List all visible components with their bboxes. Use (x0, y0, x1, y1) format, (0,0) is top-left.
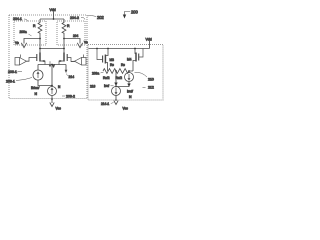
svg-text:208-1: 208-1 (6, 80, 15, 84)
outer dashed box 202 (left amplifier) (9, 15, 87, 99)
label 210 (135, 72, 154, 81)
Vss arrow (left box bottom) (50, 103, 61, 111)
node: right output tap (63, 38, 65, 40)
node: bottom edge crossing (51, 98, 53, 100)
svg-text:208-2: 208-2 (66, 95, 75, 99)
wire: tail rail (38, 64, 66, 66)
svg-text:Vo: Vo (84, 41, 88, 45)
label 208-1 (6, 78, 32, 84)
svg-text:Vdd: Vdd (50, 8, 56, 12)
label 214 (90, 85, 96, 89)
svg-text:N: N (35, 92, 38, 96)
current source I3 (210, upper right) (116, 71, 134, 87)
node: I3 top junction (128, 70, 130, 72)
VDD right (146, 38, 152, 49)
transistor M3 (diode-connected) (97, 49, 114, 72)
resistor value labels (103, 76, 122, 80)
label 206a (20, 30, 32, 36)
svg-text:M4: M4 (127, 58, 132, 62)
label Ibias/N (31, 86, 39, 96)
svg-text:Ibias/: Ibias/ (31, 86, 39, 90)
labels Rs/2 (110, 63, 125, 67)
transistor M4 (mirror) (127, 49, 143, 72)
label 204-2 (70, 16, 85, 20)
node: m4 drain (134, 48, 136, 50)
resistor R2 (right load) (62, 19, 70, 53)
Vss arrow (right box) (114, 101, 128, 111)
wire + output terminal arrow Vo+ (right) (64, 34, 88, 48)
svg-text:210: 210 (148, 78, 154, 82)
input buffer A2 (right) (71, 55, 86, 66)
wire: top bus (89, 48, 150, 50)
node: drain tap (107, 48, 109, 50)
current source I4 (Iref) (112, 87, 121, 101)
resistor R3 (replica, horizontal) (103, 69, 133, 74)
label 206-1 (8, 70, 22, 74)
label Iref (104, 84, 114, 88)
svg-text:200: 200 (131, 10, 139, 15)
wire: crossbar between drains (40, 48, 64, 50)
svg-text:212: 212 (148, 86, 154, 90)
svg-text:Rs: Rs (121, 63, 125, 67)
svg-text:Iref: Iref (104, 84, 109, 88)
node A (39, 48, 41, 50)
label 208-2 (62, 95, 75, 99)
inner dashed box 204-1 (14, 21, 46, 45)
svg-text:204-2: 204-2 (70, 16, 79, 20)
node B (63, 48, 65, 50)
wire: center tap down (115, 71, 117, 87)
label 212 (143, 86, 154, 90)
label 214-1 (below box edge) (101, 102, 114, 106)
svg-text:R: R (67, 24, 70, 28)
resistor R1 (left load) (33, 19, 42, 53)
svg-text:206a: 206a (20, 30, 27, 34)
svg-text:214: 214 (69, 75, 75, 79)
svg-text:Vss: Vss (56, 107, 62, 111)
tail end arrow + label 214 (65, 65, 75, 80)
dashed box 206 (bias generator right) (88, 45, 163, 101)
label Iref/N (127, 90, 133, 100)
svg-text:214-1: 214-1 (101, 102, 109, 106)
svg-text:Rs: Rs (110, 63, 114, 67)
svg-text:R: R (33, 24, 36, 28)
label 204-1 (13, 17, 28, 22)
wire: top feed rail (40, 18, 64, 20)
arrow on tap wire (114, 83, 117, 87)
svg-text:202: 202 (97, 15, 105, 20)
label 200 figure callout (123, 10, 139, 19)
node: vdd junction (53, 18, 55, 20)
inner dashed box 204-2 (57, 21, 85, 45)
label 202 (88, 15, 105, 20)
svg-text:Vss: Vss (123, 107, 129, 111)
svg-text:Vo: Vo (15, 41, 19, 45)
svg-text:Rs/2: Rs/2 (103, 76, 110, 80)
label Vs (49, 61, 56, 68)
node: left output tap (39, 38, 41, 40)
node: tail junction (51, 64, 53, 66)
node: gate tap (96, 48, 98, 50)
svg-text:216: 216 (90, 85, 96, 89)
svg-text:Rs/2: Rs/2 (116, 76, 123, 80)
svg-text:204-1: 204-1 (13, 17, 22, 21)
svg-text:N: N (129, 95, 132, 99)
svg-text:M3: M3 (110, 58, 115, 62)
svg-text:208a: 208a (92, 72, 99, 76)
VDD left (50, 8, 56, 19)
input buffer A1 (left) (15, 55, 29, 66)
svg-text:Iref/: Iref/ (127, 90, 133, 94)
svg-text:206-1: 206-1 (8, 70, 17, 74)
wire + output terminal arrow Vo- (left) (15, 39, 40, 48)
node: resistor center tap (115, 70, 117, 72)
label 208a (92, 72, 104, 76)
transistor M2 (right nmos) (59, 53, 75, 65)
transistor M1 (left nmos) (29, 53, 45, 65)
current source I2 (center tail) (48, 65, 57, 104)
node: I4 top (115, 86, 117, 88)
current source I1 (left, 208-1) (33, 65, 52, 86)
svg-text:Vdd: Vdd (146, 38, 152, 42)
svg-text:N: N (58, 85, 61, 89)
node: merge junction (51, 85, 53, 87)
svg-text:204: 204 (73, 34, 79, 38)
